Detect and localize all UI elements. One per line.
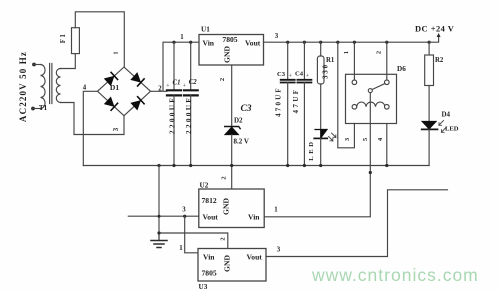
ground rail xyxy=(83,165,429,167)
resistor R1 330 xyxy=(317,42,335,129)
svg-text:1: 1 xyxy=(180,34,184,41)
svg-text:D1: D1 xyxy=(110,83,119,92)
svg-text:R2: R2 xyxy=(435,57,444,64)
wire U3 Vout xyxy=(266,190,448,257)
junction xyxy=(286,164,289,167)
junction xyxy=(319,164,322,167)
svg-text:470UF: 470UF xyxy=(275,86,283,117)
wire secondary top to fuse xyxy=(61,54,76,69)
fuse F1 xyxy=(72,28,80,54)
svg-text:U2: U2 xyxy=(200,182,209,190)
svg-text:3: 3 xyxy=(277,247,281,254)
junction xyxy=(353,41,356,44)
junction xyxy=(286,41,289,44)
svg-text:1: 1 xyxy=(113,51,120,54)
capacitor C4 xyxy=(292,42,311,165)
svg-text:DC +24 V: DC +24 V xyxy=(415,25,454,34)
junction xyxy=(183,215,186,218)
svg-text:Vout: Vout xyxy=(203,213,219,222)
svg-text:2: 2 xyxy=(376,51,383,54)
junction xyxy=(157,231,160,234)
wire relay pin 5 to U2 Vin xyxy=(264,124,370,217)
junction xyxy=(230,164,233,167)
svg-text:LED: LED xyxy=(445,126,459,133)
junction xyxy=(189,164,192,167)
junction xyxy=(172,164,175,167)
junction xyxy=(385,164,388,167)
wire AC L to primary xyxy=(34,64,41,66)
wire node 2 riser to U1 input rail xyxy=(151,42,200,91)
svg-text:Vout: Vout xyxy=(247,253,263,262)
zener D2 8.2V xyxy=(225,65,249,189)
svg-text:Vin: Vin xyxy=(248,213,260,222)
regulator U3 7805 xyxy=(198,249,266,291)
svg-text:4: 4 xyxy=(83,85,87,92)
wire relay pin 2 xyxy=(386,42,388,80)
svg-text:T1: T1 xyxy=(39,104,48,112)
svg-text:AC220V 50 Hz: AC220V 50 Hz xyxy=(18,51,28,122)
svg-text:C3: C3 xyxy=(240,104,251,114)
wire U2 Vout stub xyxy=(128,215,199,217)
resistor R2 xyxy=(425,42,444,121)
svg-text:2: 2 xyxy=(221,176,228,179)
AC input terminal L xyxy=(32,63,36,67)
svg-text:Vin: Vin xyxy=(203,39,215,48)
wire ground branch xyxy=(159,166,228,249)
junction xyxy=(158,215,161,218)
capacitor C2 xyxy=(183,42,198,165)
wire node 3 to secondary bottom xyxy=(61,103,125,135)
transformer T1 primary winding xyxy=(41,65,46,109)
wire node 4 to ground rail xyxy=(83,91,97,165)
svg-text:C2: C2 xyxy=(189,79,198,86)
AC input terminal N xyxy=(31,107,35,111)
svg-text:7812: 7812 xyxy=(202,196,217,205)
transformer T1 secondary winding xyxy=(56,69,60,103)
svg-text:3: 3 xyxy=(182,207,186,214)
wire relay pin 1 xyxy=(353,42,355,80)
junction xyxy=(172,41,175,44)
regulator U2 7812 xyxy=(199,182,264,228)
svg-text:D4: D4 xyxy=(442,111,451,119)
svg-text:47UF: 47UF xyxy=(292,88,300,114)
junction xyxy=(303,41,306,44)
svg-text:D6: D6 xyxy=(397,65,406,73)
transformer T1 core xyxy=(50,64,52,104)
svg-text:www.cntronics.com: www.cntronics.com xyxy=(311,265,479,285)
svg-text:U1: U1 xyxy=(201,26,210,34)
junction xyxy=(189,41,192,44)
svg-text:U3: U3 xyxy=(199,283,208,291)
svg-text:7805: 7805 xyxy=(202,269,217,278)
svg-text:F1: F1 xyxy=(59,33,67,44)
svg-text:2: 2 xyxy=(219,78,226,81)
wire relay pin 4 to ground rail xyxy=(386,124,388,166)
wire fuse top loop to bridge node 1 xyxy=(75,12,124,67)
regulator U1 7805 xyxy=(199,26,264,66)
svg-text:3: 3 xyxy=(275,33,279,40)
svg-text:330: 330 xyxy=(323,63,330,79)
capacitor C3 xyxy=(275,42,295,165)
wire AC N to primary xyxy=(33,108,41,110)
svg-text:R1: R1 xyxy=(326,57,335,64)
wire U2 Vout to U3 Vin xyxy=(185,216,198,253)
junction xyxy=(369,171,372,174)
ground symbol xyxy=(151,233,167,248)
svg-text:D2: D2 xyxy=(234,117,243,125)
svg-text:7805: 7805 xyxy=(222,35,237,44)
svg-text:GND: GND xyxy=(222,198,231,215)
relay D6 xyxy=(346,74,397,123)
svg-text:1: 1 xyxy=(343,51,350,54)
svg-text:8.2 V: 8.2 V xyxy=(234,138,249,146)
svg-text:2: 2 xyxy=(220,237,227,240)
DC +24V terminal xyxy=(415,25,454,43)
LED D3 xyxy=(308,130,336,166)
svg-text:GND: GND xyxy=(223,255,232,272)
svg-text:1: 1 xyxy=(179,245,183,252)
svg-text:LED: LED xyxy=(308,139,315,160)
junction xyxy=(385,41,388,44)
bridge rectifier D1 xyxy=(98,67,151,116)
junction xyxy=(336,41,339,44)
junction xyxy=(303,164,306,167)
svg-text:C3: C3 xyxy=(277,71,286,78)
svg-text:Vout: Vout xyxy=(245,39,261,48)
svg-text:C4: C4 xyxy=(295,71,304,78)
junction xyxy=(428,41,431,44)
U1 output rail xyxy=(264,41,430,43)
svg-text:2200UF: 2200UF xyxy=(168,96,177,134)
junction xyxy=(157,164,160,167)
svg-text:1: 1 xyxy=(274,207,278,214)
wire relay pin 3 to +24 rail xyxy=(338,42,355,148)
LED D4 xyxy=(422,111,459,166)
svg-text:2200UF: 2200UF xyxy=(184,96,193,134)
svg-text:Vin: Vin xyxy=(203,253,215,262)
svg-text:C1: C1 xyxy=(173,80,181,87)
svg-text:3: 3 xyxy=(113,127,120,131)
junction xyxy=(319,41,322,44)
svg-text:GND: GND xyxy=(223,46,232,63)
capacitor C1 xyxy=(166,42,181,165)
